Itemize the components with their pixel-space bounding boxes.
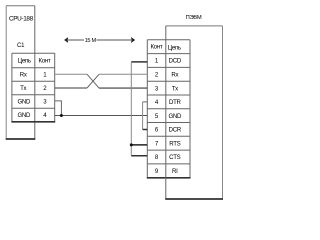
svg-text:1: 1: [155, 58, 159, 65]
svg-text:Rx: Rx: [20, 72, 27, 79]
svg-text:4: 4: [43, 112, 47, 119]
svg-text:3: 3: [155, 85, 159, 92]
svg-text:1: 1: [43, 72, 47, 79]
svg-text:RI: RI: [172, 168, 178, 175]
svg-text:5: 5: [155, 113, 159, 120]
svg-text:2: 2: [43, 85, 47, 92]
svg-text:2: 2: [155, 71, 159, 78]
svg-text:CPU-188: CPU-188: [9, 16, 34, 23]
svg-text:GND: GND: [168, 113, 182, 120]
svg-text:C1: C1: [17, 43, 25, 49]
svg-text:Цепь: Цепь: [168, 44, 181, 51]
svg-text:RTS: RTS: [169, 140, 180, 147]
svg-text:GND: GND: [17, 99, 31, 106]
svg-text:CTS: CTS: [169, 154, 181, 161]
svg-text:3: 3: [43, 99, 47, 106]
svg-text:9: 9: [155, 168, 159, 175]
svg-text:8: 8: [155, 154, 159, 161]
svg-text:Конт: Конт: [150, 44, 162, 51]
svg-text:6: 6: [155, 127, 159, 134]
svg-text:DTR: DTR: [169, 99, 182, 106]
svg-text:GND: GND: [17, 112, 31, 119]
svg-text:DCR: DCR: [169, 127, 182, 134]
svg-text:DCD: DCD: [169, 58, 182, 65]
svg-text:Rx: Rx: [171, 71, 178, 78]
svg-text:15 M: 15 M: [85, 38, 97, 44]
svg-text:Tx: Tx: [20, 85, 26, 92]
svg-text:4: 4: [155, 99, 159, 106]
svg-text:Tx: Tx: [172, 85, 178, 92]
svg-text:7: 7: [155, 140, 159, 147]
svg-text:ПЭВМ: ПЭВМ: [186, 15, 202, 21]
svg-text:Конт: Конт: [39, 57, 51, 64]
svg-text:Цепь: Цепь: [18, 57, 31, 64]
